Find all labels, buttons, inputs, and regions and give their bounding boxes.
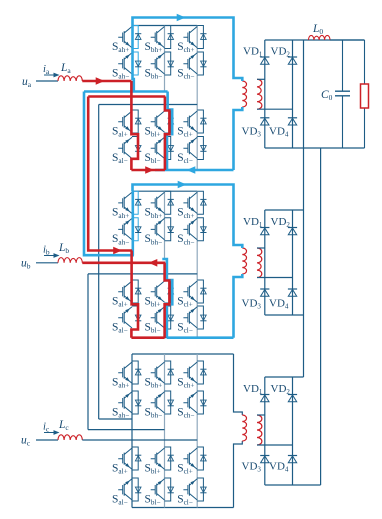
diode VD4 bridge 3 [288, 455, 297, 457]
wire cyan bus M1-M2 [84, 92, 134, 256]
diode VD1 bridge 2 [260, 227, 269, 229]
svg-text:VD1: VD1 [243, 46, 263, 59]
arrow red u_a [96, 77, 105, 85]
wire T1 secondary top tap [257, 78, 265, 80]
svg-text:VD2: VD2 [271, 383, 291, 396]
wire u_c line [82, 439, 197, 441]
inductor L_c [58, 435, 82, 440]
switch S_bh- module 2 [151, 218, 174, 241]
svg-text:VD3: VD3 [242, 126, 262, 139]
wire cyan loop M1 right lower [234, 107, 243, 170]
svg-text:Sal−: Sal− [112, 152, 128, 165]
wire module 2 bottom rail [132, 337, 234, 339]
svg-text:Sal−: Sal− [112, 493, 128, 506]
svg-text:C0: C0 [321, 89, 333, 102]
wire bridge 1 top rail [265, 39, 365, 41]
arrow red M2 rail entry [113, 247, 122, 255]
wire module 3 top rail [132, 353, 234, 355]
switch S_al- module 1 [118, 137, 141, 160]
wire bridge 3 top rail [265, 376, 304, 378]
wire module 3 leg-a axis [131, 354, 133, 508]
svg-text:ic: ic [43, 422, 50, 434]
svg-text:VD2: VD2 [271, 46, 291, 59]
switch S_al+ module 2 [118, 280, 141, 303]
diode VD4 bridge 2 [288, 288, 297, 290]
wire module 3 leg-c axis [196, 354, 198, 508]
wire module 3 right edge upper [234, 354, 243, 415]
wire u_a lead [36, 80, 58, 82]
transformer T2 secondary winding [257, 248, 262, 278]
wire module2 phase-c rail [88, 273, 197, 275]
svg-text:La: La [60, 62, 71, 75]
svg-text:L0: L0 [312, 23, 323, 36]
switch S_cl- module 1 [183, 137, 206, 160]
switch S_ah+ module 1 [118, 26, 141, 49]
wire cyan M1 leg-b lower [167, 92, 172, 171]
wire bridge 3 leg VD1/VD3 [264, 377, 266, 485]
wire module 2 top rail [132, 190, 197, 192]
wire u_b lead [36, 262, 58, 264]
wire T3 secondary top tap [257, 414, 265, 416]
wire cyan M2 leg-b [162, 259, 172, 338]
switch S_ch- module 3 [183, 391, 206, 414]
switch S_ch- module 2 [183, 218, 206, 241]
arrow cyan M1 top [177, 14, 186, 22]
inductor L_a [58, 76, 82, 81]
wire series bus output negative [320, 148, 322, 485]
wire bridge 2 top rail [265, 209, 304, 211]
diode VD1 bridge 3 [260, 394, 269, 396]
switch S_al- module 3 [118, 478, 141, 501]
svg-text:Sal−: Sal− [112, 321, 128, 334]
svg-text:ub: ub [21, 258, 31, 271]
wire T1 secondary bottom tap [257, 108, 293, 110]
wire cyan M1 leg-a upper [133, 26, 134, 92]
switch S_cl+ module 1 [183, 110, 206, 133]
switch S_bl+ module 2 [151, 280, 174, 303]
arrow cyan M1 bottom rail [187, 166, 196, 174]
wire u_c lead [36, 439, 58, 441]
svg-text:VD4: VD4 [269, 298, 289, 311]
wire module 1 leg-c axis [196, 26, 198, 171]
arrow red M1 bottom rail [145, 166, 154, 174]
wire module 1 leg-b axis [164, 26, 166, 92]
switch S_bl+ module 3 [151, 447, 174, 470]
svg-text:ib: ib [43, 245, 50, 257]
wire module 1 bottom rail [132, 169, 234, 171]
wire bridge 2 bottom rail [265, 314, 304, 316]
diode VD4 bridge 1 [288, 117, 297, 119]
switch S_bh- module 3 [151, 391, 174, 414]
svg-text:VD1: VD1 [243, 383, 263, 396]
switch S_al+ module 3 [118, 447, 141, 470]
arrow cyan M2 top [178, 181, 187, 189]
switch S_cl+ module 2 [183, 280, 206, 303]
transformer T1 primary winding [242, 81, 246, 107]
wire output top rail R [330, 39, 365, 41]
diode VD1 bridge 1 [260, 56, 269, 58]
wire cyan loop M2 right lower [234, 274, 243, 338]
arrow red u_b [149, 259, 158, 267]
wire bridge 1 leg VD1/VD3 [264, 40, 266, 148]
switch S_ah+ module 2 [118, 191, 141, 214]
wire module 3 right edge lower [234, 441, 243, 508]
switch S_bh+ module 1 [151, 26, 174, 49]
resistor load R [361, 40, 369, 148]
svg-text:Scl−: Scl− [177, 493, 193, 506]
switch S_cl- module 2 [183, 306, 206, 329]
switch S_bl- module 3 [151, 478, 174, 501]
svg-text:ua: ua [22, 76, 32, 89]
wire bridge 2 leg VD2/VD4 [292, 210, 294, 315]
wire red M1 phase rail [88, 95, 165, 98]
wire series bus bridge1 to bridge3 top [303, 40, 305, 377]
wire cyan M1 bottom rail [155, 169, 234, 172]
wire module 3 bottom rail [132, 507, 234, 509]
switch S_ch+ module 3 [183, 361, 206, 384]
svg-text:VD3: VD3 [242, 298, 262, 311]
arrow i_a [44, 74, 59, 76]
transformer T1 secondary winding [257, 79, 262, 109]
wire red bus M1-M2 [88, 97, 132, 251]
wire cyan loop M1 top [133, 18, 243, 82]
transformer T2 primary winding [242, 248, 246, 274]
switch S_ah+ module 3 [118, 361, 141, 384]
arrow i_b [44, 255, 59, 257]
switch S_ch+ module 2 [183, 191, 206, 214]
wire module1 phase-c rail [99, 104, 198, 106]
svg-text:VD1: VD1 [243, 216, 263, 229]
switch S_cl+ module 3 [183, 447, 206, 470]
transformer T3 primary winding [242, 415, 246, 441]
svg-text:VD3: VD3 [242, 461, 262, 474]
diode VD2 bridge 2 [288, 227, 297, 229]
wire T2 secondary top tap [257, 247, 265, 249]
svg-text:Lc: Lc [58, 419, 69, 432]
diode VD2 bridge 1 [288, 56, 297, 58]
switch S_bl+ module 1 [151, 110, 174, 133]
switch S_cl- module 3 [183, 478, 206, 501]
wire module3 phase-a rail [99, 418, 132, 420]
wire bridge 1 leg VD2/VD4 [292, 40, 294, 148]
wire module 2 leg-c axis [196, 191, 198, 338]
wire red M1 bottom rail [131, 169, 165, 172]
wire cyan M1 phase rail [84, 90, 168, 93]
wire bus module1-c to module3-a [98, 105, 100, 420]
wire bridge 2 leg VD1/VD3 [264, 210, 266, 315]
svg-text:Scl−: Scl− [177, 321, 193, 334]
wire red u_b line [82, 261, 165, 264]
svg-text:VD4: VD4 [269, 126, 289, 139]
wire T3 secondary bottom tap [257, 444, 293, 446]
inductor L_0 [309, 35, 331, 40]
svg-text:uc: uc [21, 435, 31, 448]
wire red M1 leg-b [165, 97, 170, 171]
switch S_ah- module 1 [118, 52, 141, 75]
wire bridge 1 bottom rail [265, 147, 365, 149]
switch S_bl- module 2 [151, 306, 174, 329]
svg-text:VD2: VD2 [271, 216, 291, 229]
wire cyan M2 bottom rail [167, 336, 234, 339]
transformer T3 secondary winding [257, 415, 262, 445]
diode VD3 bridge 1 [260, 117, 269, 119]
switch S_bh- module 1 [151, 52, 174, 75]
wire T2 secondary bottom tap [257, 277, 293, 279]
diode VD2 bridge 3 [288, 394, 297, 396]
wire red M2 bottom rail [131, 336, 164, 339]
inductor L_b [58, 258, 82, 263]
diode VD3 bridge 3 [260, 455, 269, 457]
wire bridge 3 bottom rail [265, 484, 321, 486]
wire red M2 leg-b [165, 263, 170, 338]
svg-text:Scl−: Scl− [177, 152, 193, 165]
switch S_al+ module 1 [118, 110, 141, 133]
svg-text:ia: ia [43, 64, 50, 76]
wire module 1 top rail [132, 25, 197, 27]
switch S_ch- module 1 [183, 52, 206, 75]
switch S_ah- module 2 [118, 218, 141, 241]
capacitor C_0 [335, 40, 350, 148]
svg-text:Lb: Lb [58, 242, 69, 255]
switch S_ch+ module 1 [183, 26, 206, 49]
switch S_bh+ module 2 [151, 191, 174, 214]
wire module 2 leg-b axis [164, 191, 166, 259]
diode VD3 bridge 2 [260, 288, 269, 290]
wire red u_a line [82, 80, 131, 83]
switch S_bl- module 1 [151, 137, 174, 160]
wire red M2 leg-a [131, 251, 138, 338]
switch S_bh+ module 3 [151, 361, 174, 384]
wire module3 phase-b rail [88, 429, 165, 431]
wire cyan M2 leg-a upper [132, 191, 135, 255]
wire bus module2-c to module3-b [87, 274, 89, 430]
switch S_al- module 2 [118, 306, 141, 329]
switch S_ah- module 3 [118, 391, 141, 414]
svg-text:VD4: VD4 [269, 461, 289, 474]
wire cyan loop M2 top [133, 185, 243, 249]
arrow i_c [44, 432, 59, 434]
wire bridge 3 leg VD2/VD4 [292, 377, 294, 485]
wire module 3 leg-b axis [164, 354, 166, 508]
wire red M1 leg-a [131, 81, 138, 170]
